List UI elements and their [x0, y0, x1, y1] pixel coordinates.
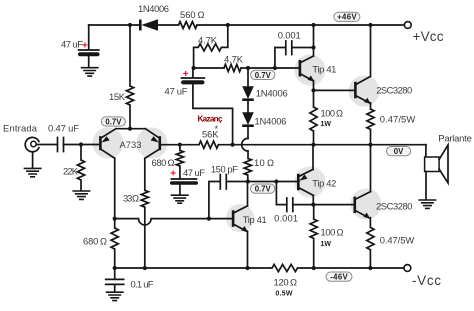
- svg-text:0.001: 0.001: [278, 29, 301, 40]
- wire: output to speaker: [425, 145, 427, 157]
- svg-text:+: +: [82, 41, 88, 52]
- input RCA connector: [25, 137, 39, 151]
- svg-text:0.1 uF: 0.1 uF: [131, 279, 154, 290]
- svg-text:+: +: [170, 169, 176, 180]
- svg-text:+46V: +46V: [337, 13, 357, 22]
- svg-text:A733: A733: [120, 139, 142, 150]
- capacitor 150pF: [209, 175, 248, 219]
- capacitor 0.001 lower: [276, 182, 313, 212]
- ground under 22K: [72, 191, 90, 199]
- resistor 0.47/5W upper: [367, 103, 374, 145]
- capacitor 0.1uF: [106, 268, 124, 292]
- node: 0.001 upper to collector: [311, 45, 315, 49]
- svg-text:-46V: -46V: [330, 273, 348, 282]
- svg-text:56K: 56K: [202, 129, 219, 140]
- node: 150pF junction on VAS base line: [207, 217, 211, 221]
- svg-text:120 Ω: 120 Ω: [274, 277, 298, 288]
- highlight circle Tip41 lower (VAS): [226, 204, 254, 232]
- svg-text:Tip 41: Tip 41: [243, 214, 267, 225]
- highlight circle Tip42: [295, 167, 326, 198]
- ground under input: [24, 152, 42, 177]
- node: rail/VAS emitter junction: [245, 266, 249, 270]
- label 0V pill: [387, 147, 411, 157]
- node: rail/0.47 junction: [368, 266, 372, 270]
- wire: 2SC3280 upper collector to rail: [370, 25, 372, 76]
- svg-text:0.001: 0.001: [274, 212, 298, 223]
- capacitor C3 47uF (feedback): [170, 179, 198, 195]
- resistor 680ohm (feedback shunt): [176, 145, 183, 179]
- resistor 680ohm (bottom): [111, 219, 118, 268]
- svg-text:22K: 22K: [63, 166, 79, 177]
- wire: 4.7K no.1 branch from rail: [194, 25, 228, 68]
- svg-text:1N4006: 1N4006: [256, 87, 288, 98]
- resistor 100ohm 1W lower: [310, 205, 317, 268]
- node: rail/100ohm junction: [312, 266, 316, 270]
- svg-text:15K: 15K: [109, 91, 126, 102]
- svg-text:Entrada: Entrada: [3, 122, 38, 133]
- wire: VAS collector line to Tip42 base: [248, 181, 299, 183]
- wire: left collector down to VAS base line: [114, 158, 116, 218]
- wire: output line (A733 to speaker): [233, 144, 426, 146]
- terminal -Vcc: [404, 265, 411, 272]
- highlight circle Tip41 upper: [295, 55, 326, 86]
- svg-text:560 Ω: 560 Ω: [180, 9, 205, 20]
- wire: VAS base line with hop over 33ohm line: [115, 219, 233, 225]
- resistor 100ohm 1W upper: [310, 90, 317, 144]
- wire: speaker to ground: [425, 172, 427, 200]
- svg-text:100 Ω: 100 Ω: [321, 226, 344, 237]
- svg-text:47 uF: 47 uF: [165, 85, 188, 96]
- svg-text:0V: 0V: [394, 147, 404, 156]
- node: rail/15K junction: [128, 23, 132, 27]
- node: rail/33 junction: [143, 266, 147, 270]
- svg-text:0.47/5W: 0.47/5W: [380, 235, 415, 246]
- transistor Q2 A733 right (PNP): [145, 129, 160, 159]
- diode D1 1N4006 (top): [140, 19, 158, 31]
- svg-text:1W: 1W: [321, 241, 332, 248]
- transistor Q3 Tip41 lower VAS (NPN): [233, 206, 248, 232]
- svg-text:Tip 42: Tip 42: [312, 177, 336, 188]
- label -46V pill: [326, 272, 352, 282]
- svg-text:100 Ω: 100 Ω: [321, 107, 344, 118]
- svg-text:1N4006: 1N4006: [255, 115, 287, 126]
- node: 4.7K junction: [192, 66, 196, 70]
- wire: 2SC3280 lower collector to output: [370, 145, 372, 192]
- label 0.7V pill (A733): [101, 117, 125, 127]
- svg-text:33 Ω: 33 Ω: [123, 193, 139, 204]
- wire: Tip41 upper emitter to node: [313, 81, 315, 91]
- svg-text:Tip 41: Tip 41: [312, 63, 336, 74]
- node: rail/Tip41 collector junction: [311, 23, 315, 27]
- resistor 4.7K no.2: [224, 64, 241, 71]
- wire: Tip41 upper collector to rail: [313, 25, 315, 56]
- transistor Q1 A733 left (PNP): [100, 129, 116, 159]
- node: emitter bus / 15K: [128, 127, 132, 131]
- node: feedback node: [231, 143, 235, 147]
- ground under C3: [171, 195, 189, 203]
- wire: input to coupling cap: [36, 144, 56, 146]
- resistor 120ohm 0.5W: [272, 264, 298, 271]
- resistor 560ohm: [179, 22, 198, 29]
- node: rail/680 junction: [113, 266, 117, 270]
- wire: diode chain to hop: [247, 127, 249, 139]
- svg-text:2SC3280: 2SC3280: [376, 201, 413, 212]
- diode D3 1N4006: [242, 101, 254, 126]
- svg-text:0.7V: 0.7V: [255, 185, 272, 194]
- wire: -Vcc bottom rail: [115, 267, 404, 269]
- svg-text:+: +: [183, 69, 189, 80]
- wire: upper output base line: [314, 89, 355, 91]
- wire: hop to 10 ohm: [247, 151, 249, 158]
- capacitor 0.001 upper: [275, 41, 314, 68]
- wire: Tip42 emitter to output line: [312, 145, 314, 170]
- svg-text:Parlante: Parlante: [438, 132, 472, 143]
- resistor 33ohm: [141, 158, 148, 268]
- svg-text:Kazanç: Kazanç: [198, 115, 223, 124]
- svg-text:0.7V: 0.7V: [255, 71, 272, 80]
- label +46V pill: [334, 12, 360, 22]
- svg-text:150 pF: 150 pF: [211, 163, 238, 174]
- svg-text:47 uF: 47 uF: [183, 167, 205, 178]
- node: A733 right base node: [178, 143, 182, 147]
- wire: Tip42 collector to lower node: [312, 195, 314, 204]
- node: output/0.47 junction: [368, 143, 372, 147]
- transistor Q6 Tip 42 lower driver (PNP): [298, 169, 313, 195]
- node: 0.001 branch on bias line: [273, 66, 277, 70]
- highlight circle 2SC3280 lower: [351, 189, 382, 220]
- node: VAS base line left junction: [113, 217, 117, 221]
- resistor 15K: [126, 86, 133, 105]
- wire: 15K from rail to emitter bus: [129, 25, 131, 129]
- svg-text:1N4006: 1N4006: [138, 3, 169, 14]
- wire hop over output line: [242, 138, 248, 151]
- svg-text:4.7K: 4.7K: [198, 34, 218, 45]
- ground under C1: [81, 68, 99, 76]
- svg-text:680 Ω: 680 Ω: [83, 235, 107, 246]
- node: rail/4.7K junction: [226, 23, 230, 27]
- highlight circle A733 right: [137, 128, 168, 159]
- wire: VAS emitter to bottom rail: [247, 231, 249, 268]
- svg-text:0.47/5W: 0.47/5W: [380, 113, 416, 124]
- transistor Q4 Tip 41 upper driver (NPN): [300, 56, 314, 82]
- wire: +Vcc top rail: [89, 24, 404, 26]
- wire: VAS collector vertical: [247, 182, 249, 206]
- svg-text:0.47 uF: 0.47 uF: [48, 122, 79, 133]
- svg-text:10 Ω: 10 Ω: [254, 157, 274, 168]
- wire: emitter bus: [116, 128, 145, 130]
- svg-text:2SC3280: 2SC3280: [376, 85, 412, 96]
- svg-text:0.5W: 0.5W: [276, 290, 293, 297]
- svg-text:0.7V: 0.7V: [105, 117, 122, 126]
- wire: upper bias line (base of Tip41 upper): [194, 67, 299, 69]
- transistor Q7 2SC3280 lower (NPN): [355, 192, 371, 219]
- resistor 4.7K no.1: [198, 44, 221, 51]
- resistor 0.47/5W lower: [367, 218, 374, 268]
- diode D2 1N4006: [242, 68, 254, 100]
- svg-text:-Vcc: -Vcc: [412, 273, 441, 288]
- node: diode chain top: [246, 66, 250, 70]
- wire: feedback node to 56K to A733 base: [161, 144, 233, 146]
- speaker Parlante: [425, 145, 448, 183]
- capacitor C2 47uF (bootstrap): [181, 68, 233, 145]
- node: output/100ohm junction: [311, 143, 315, 147]
- node: lower driver collector node: [311, 203, 315, 207]
- wire: 10 ohm to VAS collector node: [247, 175, 249, 181]
- ground under 0.1uF: [106, 292, 124, 300]
- resistor 56K: [199, 141, 218, 148]
- wire: lower output base line: [313, 204, 354, 206]
- terminal +Vcc: [404, 22, 411, 29]
- svg-text:47 uF: 47 uF: [61, 38, 83, 49]
- svg-text:1W: 1W: [321, 121, 332, 128]
- node: VAS collector node: [246, 179, 250, 183]
- svg-text:+Vcc: +Vcc: [413, 29, 444, 44]
- transistor Q5 2SC3280 upper (NPN): [355, 76, 370, 103]
- node: upper driver emitter node: [311, 88, 315, 92]
- node: rail/2SC3280 collector junction: [368, 23, 372, 27]
- label 0.7V pill (lower bias): [251, 184, 275, 194]
- resistor 22K: [77, 145, 84, 191]
- ground under speaker: [418, 200, 436, 208]
- svg-text:4.7K: 4.7K: [224, 53, 244, 64]
- label 0.7V pill (bias): [251, 70, 275, 80]
- node: input base node: [79, 142, 83, 146]
- node: 0.001 lower branch node: [274, 179, 278, 183]
- capacitor 0.47uF input: [58, 138, 100, 152]
- capacitor C1 47uF (top-left): [78, 25, 100, 67]
- highlight circle A733 left: [93, 128, 124, 159]
- resistor 10ohm: [244, 158, 251, 175]
- svg-text:680 Ω: 680 Ω: [152, 157, 175, 168]
- highlight circle 2SC3280 upper: [349, 76, 380, 107]
